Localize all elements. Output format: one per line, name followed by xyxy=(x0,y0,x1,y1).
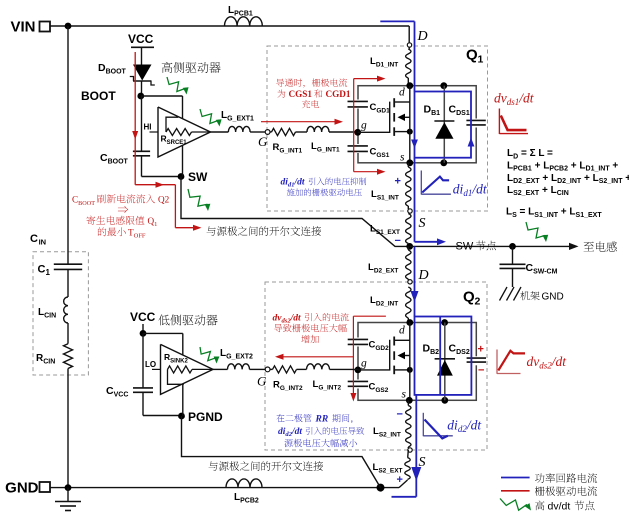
svg-text:+: + xyxy=(397,474,403,486)
svg-text:d: d xyxy=(399,325,405,337)
svg-text:−: − xyxy=(397,409,403,421)
svg-text:C: C xyxy=(30,233,38,245)
svg-text:VCC: VCC xyxy=(128,32,154,46)
svg-text:Q2: Q2 xyxy=(158,195,170,205)
svg-text:,: , xyxy=(351,414,354,425)
svg-text:d: d xyxy=(399,87,405,99)
svg-text:s: s xyxy=(400,152,405,164)
svg-text:+: + xyxy=(478,344,484,356)
svg-text:S: S xyxy=(419,216,426,231)
svg-text:+: + xyxy=(395,176,401,188)
svg-text:−: − xyxy=(478,365,484,377)
svg-text:1: 1 xyxy=(478,54,484,66)
svg-text:−: − xyxy=(395,235,401,247)
svg-text:S: S xyxy=(419,455,426,470)
svg-text:BOOT: BOOT xyxy=(81,89,116,103)
svg-text:s: s xyxy=(402,389,407,401)
svg-text:GND: GND xyxy=(542,292,564,303)
svg-text:G: G xyxy=(257,374,267,389)
svg-text:g: g xyxy=(361,120,367,132)
svg-text:PGND: PGND xyxy=(188,410,223,424)
svg-text:2: 2 xyxy=(475,296,481,308)
svg-text:GND: GND xyxy=(5,480,39,497)
svg-text:LO: LO xyxy=(145,360,156,369)
svg-text:SW: SW xyxy=(456,241,477,253)
svg-text:SW: SW xyxy=(188,170,208,184)
svg-text:RR: RR xyxy=(315,415,329,425)
svg-text:D: D xyxy=(417,29,428,44)
svg-text:Q: Q xyxy=(463,289,475,306)
svg-text:VIN: VIN xyxy=(10,19,35,36)
svg-text:CGD1: CGD1 xyxy=(326,89,351,99)
svg-text:D: D xyxy=(418,268,429,283)
svg-text:VCC: VCC xyxy=(130,310,156,324)
svg-text:G: G xyxy=(258,134,268,149)
svg-text:g: g xyxy=(361,358,367,370)
svg-text:CGS1: CGS1 xyxy=(289,89,313,99)
svg-text:HI: HI xyxy=(144,123,152,132)
svg-text:IN: IN xyxy=(39,237,47,246)
svg-text:Q: Q xyxy=(466,47,478,64)
svg-text:dv/dt: dv/dt xyxy=(548,501,571,513)
